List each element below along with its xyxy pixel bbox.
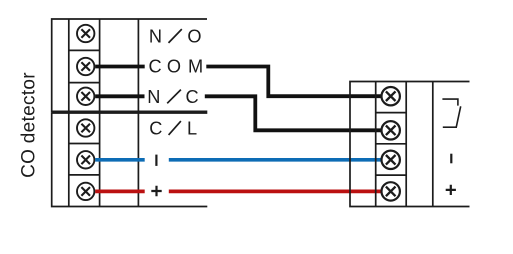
screw cell divider 1 <box>69 49 100 51</box>
svg-text:M: M <box>188 57 203 77</box>
relay contact symbol <box>442 99 460 127</box>
svg-text:C: C <box>149 119 162 139</box>
terminal screw N/C <box>77 88 94 105</box>
relay screw column right rail <box>405 82 407 207</box>
wire N/C run to relay terminal 2 <box>205 96 381 130</box>
terminal screw plus <box>77 183 94 200</box>
wire N/C stub <box>95 94 144 98</box>
svg-text:CO detector: CO detector <box>18 72 39 178</box>
relay terminal screw 2 <box>382 121 400 139</box>
svg-text:C: C <box>186 87 199 107</box>
relay minus label <box>450 154 452 164</box>
svg-text:L: L <box>187 119 197 139</box>
screw cell divider 2 <box>69 82 100 84</box>
relay screw divider 1 <box>376 112 407 114</box>
wire COM run to relay terminal 1 <box>206 67 381 97</box>
relay label divider <box>432 82 434 207</box>
relay plus label <box>446 185 456 195</box>
screw cell divider 5 <box>69 174 100 176</box>
relay screw divider 3 <box>376 174 407 176</box>
CO detector terminal block lower outline <box>52 112 208 206</box>
svg-text:O: O <box>167 57 181 77</box>
relay module outline <box>350 82 470 207</box>
label N/O slash <box>169 29 182 43</box>
terminal sections shared divider (double edge) <box>52 110 208 113</box>
terminal screw C/L <box>77 119 94 136</box>
terminal screw N/O <box>77 25 94 42</box>
label plus <box>151 186 161 196</box>
label N/C slash <box>167 90 181 104</box>
svg-text:N: N <box>147 87 160 107</box>
terminal screw minus <box>77 151 94 168</box>
relay terminal screw 3 <box>382 151 400 169</box>
relay screw divider 2 <box>376 143 407 145</box>
label column divider <box>137 19 139 207</box>
terminal screw COM <box>77 58 94 75</box>
relay terminal screw 4 <box>382 182 400 200</box>
wire plus red stub <box>95 190 145 194</box>
wire plus red run <box>169 190 381 194</box>
svg-text:C: C <box>149 57 162 77</box>
svg-text:N: N <box>149 27 162 47</box>
svg-text:O: O <box>187 27 201 47</box>
label C/L slash <box>169 121 181 135</box>
label C/L <box>149 119 197 139</box>
wire minus blue run <box>169 158 381 162</box>
relay screw column left rail <box>375 82 377 207</box>
screw cell divider 4 <box>69 143 100 145</box>
CO detector terminal block upper outline <box>52 19 207 112</box>
screw column left rail <box>68 19 70 207</box>
label COM <box>149 57 204 77</box>
wire minus blue stub <box>95 158 145 162</box>
wire COM stub <box>95 65 145 69</box>
relay terminal screw 1 <box>382 87 400 105</box>
label N/C <box>147 87 198 107</box>
screw column right rail <box>99 19 101 207</box>
label minus bar <box>155 155 157 166</box>
label N/O <box>149 27 202 47</box>
